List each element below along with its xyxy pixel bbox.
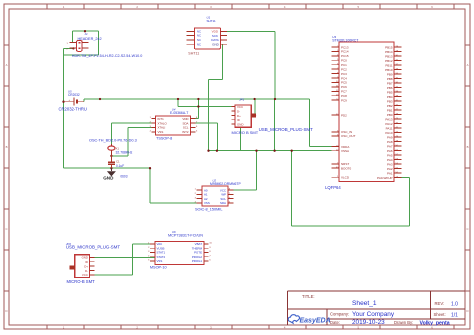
svg-text:6: 6 bbox=[209, 260, 211, 262]
svg-text:GND: GND bbox=[103, 175, 114, 180]
svg-text:PC14: PC14 bbox=[341, 50, 349, 54]
svg-text:10: 10 bbox=[209, 243, 212, 245]
svg-text:SHT11: SHT11 bbox=[188, 52, 199, 56]
svg-text:STM32L100RCT: STM32L100RCT bbox=[332, 38, 359, 42]
svg-text:3: 3 bbox=[148, 251, 150, 253]
svg-text:6: 6 bbox=[431, 5, 433, 9]
svg-text:1.0: 1.0 bbox=[451, 302, 458, 308]
svg-text:PB1: PB1 bbox=[387, 108, 393, 112]
svg-text:NC: NC bbox=[197, 34, 201, 38]
svg-text:7: 7 bbox=[209, 255, 211, 257]
svg-text:J1: J1 bbox=[85, 32, 89, 36]
svg-text:XTALO: XTALO bbox=[158, 121, 168, 125]
svg-text:PROG1: PROG1 bbox=[192, 259, 203, 263]
svg-text:VSS: VSS bbox=[204, 201, 210, 205]
svg-text:D-: D- bbox=[85, 269, 88, 273]
svg-text:USB_MICROB_PLUG-SMT: USB_MICROB_PLUG-SMT bbox=[259, 127, 313, 132]
svg-text:PB3: PB3 bbox=[387, 99, 393, 103]
svg-text:1: 1 bbox=[63, 5, 65, 9]
svg-text:SDA: SDA bbox=[183, 121, 189, 125]
svg-text:SDA: SDA bbox=[220, 201, 226, 205]
svg-text:VCC: VCC bbox=[82, 273, 88, 277]
svg-text:PB7: PB7 bbox=[387, 81, 393, 85]
svg-text:B: B bbox=[467, 145, 469, 149]
svg-text:ID: ID bbox=[85, 260, 88, 264]
svg-text:SHT11: SHT11 bbox=[207, 19, 216, 23]
svg-text:PB2: PB2 bbox=[387, 104, 393, 108]
svg-text:9: 9 bbox=[209, 247, 211, 249]
svg-text:INT2: INT2 bbox=[182, 130, 189, 134]
svg-text:0.1uF: 0.1uF bbox=[116, 164, 124, 168]
svg-text:PA8: PA8 bbox=[387, 140, 393, 144]
svg-text:VSSA: VSSA bbox=[341, 149, 349, 153]
svg-text:PA11: PA11 bbox=[386, 126, 393, 130]
svg-text:PB14: PB14 bbox=[385, 50, 393, 54]
svg-text:C: C bbox=[5, 227, 7, 231]
svg-text:VLCD: VLCD bbox=[341, 176, 350, 180]
svg-text:PA13: PA13 bbox=[385, 117, 392, 121]
svg-text:PA3: PA3 bbox=[387, 162, 393, 166]
svg-text:NC: NC bbox=[197, 42, 201, 46]
svg-text:PC13: PC13 bbox=[341, 45, 349, 49]
svg-text:PA4: PA4 bbox=[387, 158, 393, 162]
svg-text:Date:: Date: bbox=[330, 320, 340, 325]
svg-text:PC3: PC3 bbox=[341, 72, 347, 76]
svg-text:PA0-WKUP: PA0-WKUP bbox=[377, 176, 392, 180]
svg-text:PC2: PC2 bbox=[341, 67, 347, 71]
svg-text:3: 3 bbox=[195, 197, 197, 199]
svg-text:E-05366A-T: E-05366A-T bbox=[170, 111, 188, 115]
svg-text:USB_MICROB_PLUG-SMT: USB_MICROB_PLUG-SMT bbox=[66, 245, 120, 250]
svg-text:PA7: PA7 bbox=[387, 144, 393, 148]
svg-text:EasyEDA: EasyEDA bbox=[300, 318, 331, 325]
svg-text:PB13: PB13 bbox=[385, 54, 393, 58]
svg-text:MSOP-10: MSOP-10 bbox=[150, 265, 167, 269]
svg-text:5: 5 bbox=[196, 131, 198, 133]
svg-text:PA6: PA6 bbox=[387, 149, 393, 153]
svg-text:PC15: PC15 bbox=[341, 54, 349, 58]
svg-text:PB6: PB6 bbox=[387, 86, 393, 90]
svg-text:PB8: PB8 bbox=[387, 77, 393, 81]
svg-text:0603: 0603 bbox=[120, 175, 127, 179]
svg-text:XTALI: XTALI bbox=[158, 126, 166, 130]
svg-text:VDD: VDD bbox=[182, 117, 188, 121]
svg-text:PA2: PA2 bbox=[387, 167, 393, 171]
svg-text:C: C bbox=[466, 227, 468, 231]
svg-text:INT1: INT1 bbox=[158, 117, 165, 121]
svg-text:4: 4 bbox=[150, 131, 152, 133]
svg-text:PB12: PB12 bbox=[385, 59, 393, 63]
svg-text:PC9: PC9 bbox=[341, 98, 347, 102]
svg-text:PC5: PC5 bbox=[341, 81, 347, 85]
svg-text:3: 3 bbox=[210, 5, 212, 9]
svg-text:Volky_penta: Volky_penta bbox=[420, 320, 450, 326]
svg-text:2: 2 bbox=[195, 193, 197, 195]
svg-text:Drawn By:: Drawn By: bbox=[394, 320, 413, 325]
svg-text:PA1: PA1 bbox=[387, 171, 393, 175]
svg-text:TSSOP-8: TSSOP-8 bbox=[156, 137, 172, 141]
svg-text:HEADER_2x2: HEADER_2x2 bbox=[78, 37, 102, 41]
svg-text:NC: NC bbox=[197, 38, 201, 42]
svg-text:PA9: PA9 bbox=[387, 135, 393, 139]
svg-text:D: D bbox=[5, 309, 7, 313]
svg-text:TITLE:: TITLE: bbox=[302, 294, 315, 299]
svg-text:5: 5 bbox=[148, 260, 150, 262]
svg-text:OSC-TH_BD2.0-P0.76-D0.3: OSC-TH_BD2.0-P0.76-D0.3 bbox=[89, 139, 137, 143]
svg-text:D-: D- bbox=[237, 109, 240, 113]
svg-text:Company:: Company: bbox=[330, 312, 349, 317]
svg-text:D+: D+ bbox=[237, 114, 241, 118]
svg-text:Your Company: Your Company bbox=[352, 311, 395, 318]
svg-text:VSS: VSS bbox=[157, 259, 163, 263]
svg-text:PA5: PA5 bbox=[387, 153, 393, 157]
svg-text:8: 8 bbox=[209, 251, 211, 253]
svg-text:1: 1 bbox=[195, 189, 197, 191]
svg-text:PB15: PB15 bbox=[385, 45, 393, 49]
svg-text:PC7: PC7 bbox=[341, 90, 347, 94]
svg-text:Sheet_1: Sheet_1 bbox=[352, 300, 377, 307]
svg-text:GND: GND bbox=[82, 256, 88, 260]
svg-text:1/1: 1/1 bbox=[451, 312, 458, 318]
svg-text:A: A bbox=[6, 63, 8, 67]
svg-text:1: 1 bbox=[150, 117, 152, 119]
svg-text:32.768KHz: 32.768KHz bbox=[116, 151, 133, 155]
svg-text:MICRO-B SMT: MICRO-B SMT bbox=[67, 279, 96, 284]
svg-text:CR2032-THRU: CR2032-THRU bbox=[59, 106, 87, 111]
svg-text:PC6: PC6 bbox=[341, 85, 347, 89]
svg-text:D+: D+ bbox=[84, 264, 88, 268]
svg-text:MICRO B SMT: MICRO B SMT bbox=[232, 130, 259, 135]
svg-text:JP1: JP1 bbox=[239, 98, 245, 102]
svg-text:PD2: PD2 bbox=[341, 113, 347, 117]
svg-text:4: 4 bbox=[284, 5, 286, 9]
svg-text:LQFP64: LQFP64 bbox=[325, 185, 341, 190]
svg-text:1: 1 bbox=[67, 43, 69, 45]
svg-text:PB5: PB5 bbox=[387, 90, 393, 94]
svg-text:PB10: PB10 bbox=[385, 68, 393, 72]
svg-text:PB11: PB11 bbox=[385, 63, 392, 67]
svg-text:PB4: PB4 bbox=[387, 95, 393, 99]
svg-text:M95M02-DRMN6TP: M95M02-DRMN6TP bbox=[210, 182, 241, 186]
svg-text:HDR-TM_4P-P2.54-H-R2-C2-S2.54-: HDR-TM_4P-P2.54-H-R2-C2-S2.54-W10.0 bbox=[72, 54, 143, 58]
svg-text:2: 2 bbox=[136, 5, 138, 9]
svg-text:VCC: VCC bbox=[237, 105, 243, 109]
svg-text:PA10: PA10 bbox=[385, 131, 392, 135]
svg-text:D: D bbox=[466, 309, 468, 313]
svg-text:SCL: SCL bbox=[183, 126, 189, 130]
svg-text:PC0: PC0 bbox=[341, 59, 347, 63]
svg-text:Sheet:: Sheet: bbox=[434, 312, 446, 317]
svg-text:A: A bbox=[467, 63, 469, 67]
svg-text:PB0: PB0 bbox=[387, 113, 393, 117]
svg-text:PC1: PC1 bbox=[341, 63, 347, 67]
svg-text:ID: ID bbox=[237, 118, 240, 122]
svg-text:5: 5 bbox=[358, 5, 360, 9]
svg-text:GND: GND bbox=[212, 42, 220, 46]
svg-text:OSC_OUT: OSC_OUT bbox=[341, 134, 356, 138]
svg-text:PC4: PC4 bbox=[341, 76, 347, 80]
svg-text:SOIC-8_150MIL: SOIC-8_150MIL bbox=[195, 207, 222, 211]
svg-text:2019-10-23: 2019-10-23 bbox=[352, 319, 385, 326]
svg-text:GND: GND bbox=[237, 123, 243, 127]
svg-text:PB9: PB9 bbox=[387, 72, 393, 76]
svg-text:MCP73831T-FCI/UN: MCP73831T-FCI/UN bbox=[168, 233, 203, 237]
svg-text:BOOT0: BOOT0 bbox=[341, 166, 352, 170]
svg-text:B: B bbox=[6, 145, 8, 149]
svg-text:CR2032: CR2032 bbox=[68, 93, 80, 97]
svg-text:REV:: REV: bbox=[435, 301, 445, 306]
svg-text:6: 6 bbox=[196, 126, 198, 128]
svg-text:PA12: PA12 bbox=[385, 122, 392, 126]
svg-text:X1: X1 bbox=[116, 146, 120, 150]
svg-text:PC8: PC8 bbox=[341, 94, 347, 98]
svg-text:NC: NC bbox=[197, 29, 201, 33]
svg-text:VSS: VSS bbox=[158, 130, 164, 134]
svg-text:2: 2 bbox=[148, 247, 150, 249]
